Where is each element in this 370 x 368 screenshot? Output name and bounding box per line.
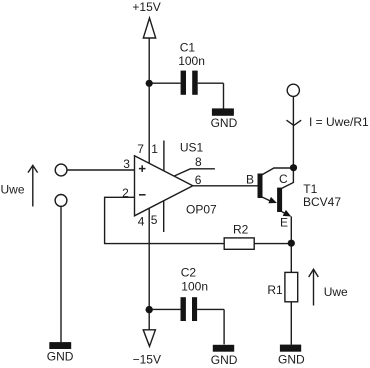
svg-text:C1: C1: [180, 40, 196, 54]
svg-text:GND: GND: [211, 116, 238, 130]
svg-text:E: E: [280, 216, 288, 230]
svg-text:+15V: +15V: [132, 0, 160, 14]
svg-text:3: 3: [123, 157, 130, 171]
svg-text:GND: GND: [278, 353, 305, 367]
svg-text:1: 1: [151, 142, 158, 156]
svg-text:2: 2: [122, 186, 129, 200]
svg-text:BCV47: BCV47: [303, 195, 341, 209]
svg-text:6: 6: [195, 173, 202, 187]
svg-text:100n: 100n: [178, 54, 205, 68]
svg-text:100n: 100n: [181, 279, 208, 293]
svg-text:GND: GND: [211, 353, 238, 367]
svg-text:R1: R1: [267, 283, 283, 297]
svg-text:R2: R2: [233, 222, 249, 236]
svg-text:C: C: [279, 172, 288, 186]
svg-text:Uwe: Uwe: [1, 183, 25, 197]
svg-text:C2: C2: [181, 265, 197, 279]
svg-text:4: 4: [138, 214, 145, 228]
svg-text:GND: GND: [47, 349, 74, 363]
svg-text:7: 7: [137, 142, 144, 156]
svg-text:OP07: OP07: [186, 203, 217, 217]
svg-text:8: 8: [195, 155, 202, 169]
svg-text:Uwe: Uwe: [324, 285, 348, 299]
svg-text:−15V: −15V: [133, 352, 161, 366]
svg-text:B: B: [246, 173, 254, 187]
svg-text:I = Uwe/R1: I = Uwe/R1: [309, 115, 369, 129]
svg-text:5: 5: [151, 213, 158, 227]
svg-text:US1: US1: [180, 140, 204, 154]
